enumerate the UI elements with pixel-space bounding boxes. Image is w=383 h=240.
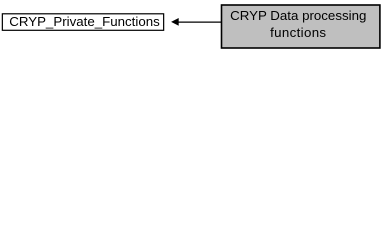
node box CRYP Data processing functions <box>222 5 380 48</box>
edge arrowhead <box>171 18 179 26</box>
node label CRYP_Private_Functions <box>2 13 164 31</box>
edge wire <box>178 21 221 23</box>
node box CRYP_Private_Functions <box>2 14 163 31</box>
node label CRYP Data processing functions <box>221 4 380 48</box>
